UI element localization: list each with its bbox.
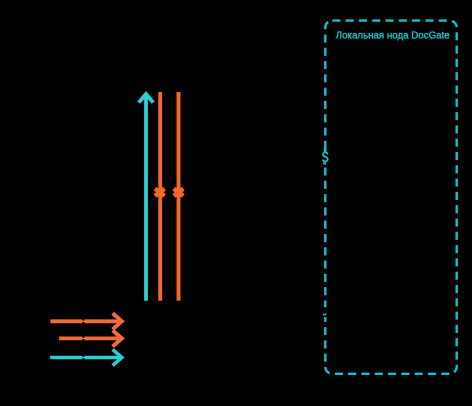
black overlay on left dashed edge (hidden label crossing) upper (322, 152, 330, 164)
X mark on orange lifeline 1 (155, 189, 165, 196)
lifeline orange 1 (158, 92, 162, 301)
lifeline orange 2 (177, 92, 181, 301)
dot artifact under S (323, 162, 326, 164)
X mark on orange lifeline 2 (174, 189, 184, 196)
small mark artifact on dashed edge lower (323, 313, 326, 316)
legend arrow orange 2 (59, 330, 122, 346)
legend arrow teal 3 (50, 350, 122, 366)
lifeline teal up-arrow stem (144, 96, 148, 301)
lifeline teal arrowhead (137, 91, 154, 104)
legend arrow orange 1 (50, 313, 122, 329)
black overlay on left dashed edge (hidden label crossing) lower (322, 307, 330, 317)
svg-text:Локальная нода DocGate: Локальная нода DocGate (336, 30, 450, 42)
dashed node box (Локальная нода DocGate) (325, 21, 456, 374)
S artifact on dashed edge (324, 149, 327, 153)
